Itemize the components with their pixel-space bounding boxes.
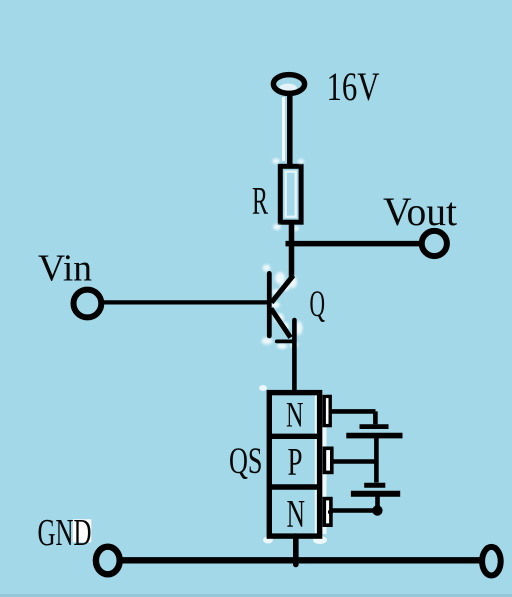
terminal Vout	[422, 231, 447, 256]
battery 2 long plate	[351, 491, 400, 497]
QS divider 2	[269, 484, 319, 489]
battery 1 long plate	[346, 433, 402, 439]
wire battery 1 to battery 2	[374, 436, 379, 483]
terminal GND left	[96, 547, 120, 575]
tab contact top (N)	[324, 396, 330, 425]
white artifact behind D of GND	[73, 519, 92, 542]
svg-text:R: R	[252, 180, 268, 223]
wire down to battery 1	[373, 411, 378, 424]
transistor Q emitter arrow vertical stroke + wire down	[292, 320, 297, 392]
wire base to Vin	[103, 300, 269, 304]
transistor Q base bar	[267, 273, 272, 336]
wire to Vout	[286, 241, 420, 247]
white artifact: strip left of top wire	[282, 97, 285, 161]
tab contact bottom (N)	[324, 499, 331, 526]
terminal 16V	[273, 75, 304, 94]
battery 1 short plate	[360, 424, 389, 429]
wire tab top to battery	[331, 409, 376, 414]
wire tab bottom to battery	[332, 508, 378, 513]
bottom edge shade	[0, 594, 512, 597]
junction dot small at tab	[328, 509, 333, 514]
white artifacts at QS box corners	[259, 385, 327, 544]
QS divider 1	[269, 434, 319, 439]
svg-text:Q: Q	[310, 284, 326, 325]
battery 2 short plate	[364, 483, 385, 488]
QS structure box	[269, 393, 319, 536]
transistor Q collector diagonal	[272, 276, 294, 303]
terminal GND right	[482, 547, 501, 576]
transistor Q emitter diagonal	[271, 309, 291, 338]
terminal Vin	[74, 290, 102, 318]
white artifact inside resistor	[286, 172, 296, 217]
svg-text:N: N	[287, 493, 306, 536]
wire battery 2 down	[375, 494, 380, 511]
wire tab middle to battery junction	[333, 459, 377, 464]
wire 16V to resistor	[287, 93, 293, 167]
tab contact middle (P)	[324, 448, 331, 472]
white artifacts around transistor Q	[262, 265, 303, 350]
svg-text:N: N	[286, 395, 304, 435]
white artifacts at resistor corners	[273, 158, 305, 231]
svg-text:QS: QS	[229, 441, 263, 482]
resistor R	[280, 166, 301, 222]
svg-text:GND: GND	[38, 512, 92, 554]
white artifact: inside 16V terminal	[279, 84, 297, 93]
svg-text:Vin: Vin	[38, 248, 92, 290]
svg-text:P: P	[288, 441, 303, 484]
svg-text:16V: 16V	[327, 64, 380, 109]
ground wire	[123, 557, 480, 563]
white artifact strips along QS box right edge	[315, 394, 318, 534]
wire QS box to ground	[293, 536, 299, 565]
svg-text:Vout: Vout	[383, 189, 457, 234]
wire resistor to collector	[289, 222, 295, 278]
junction dot	[372, 505, 382, 515]
transistor Q emitter arrow bottom stroke	[277, 339, 292, 343]
